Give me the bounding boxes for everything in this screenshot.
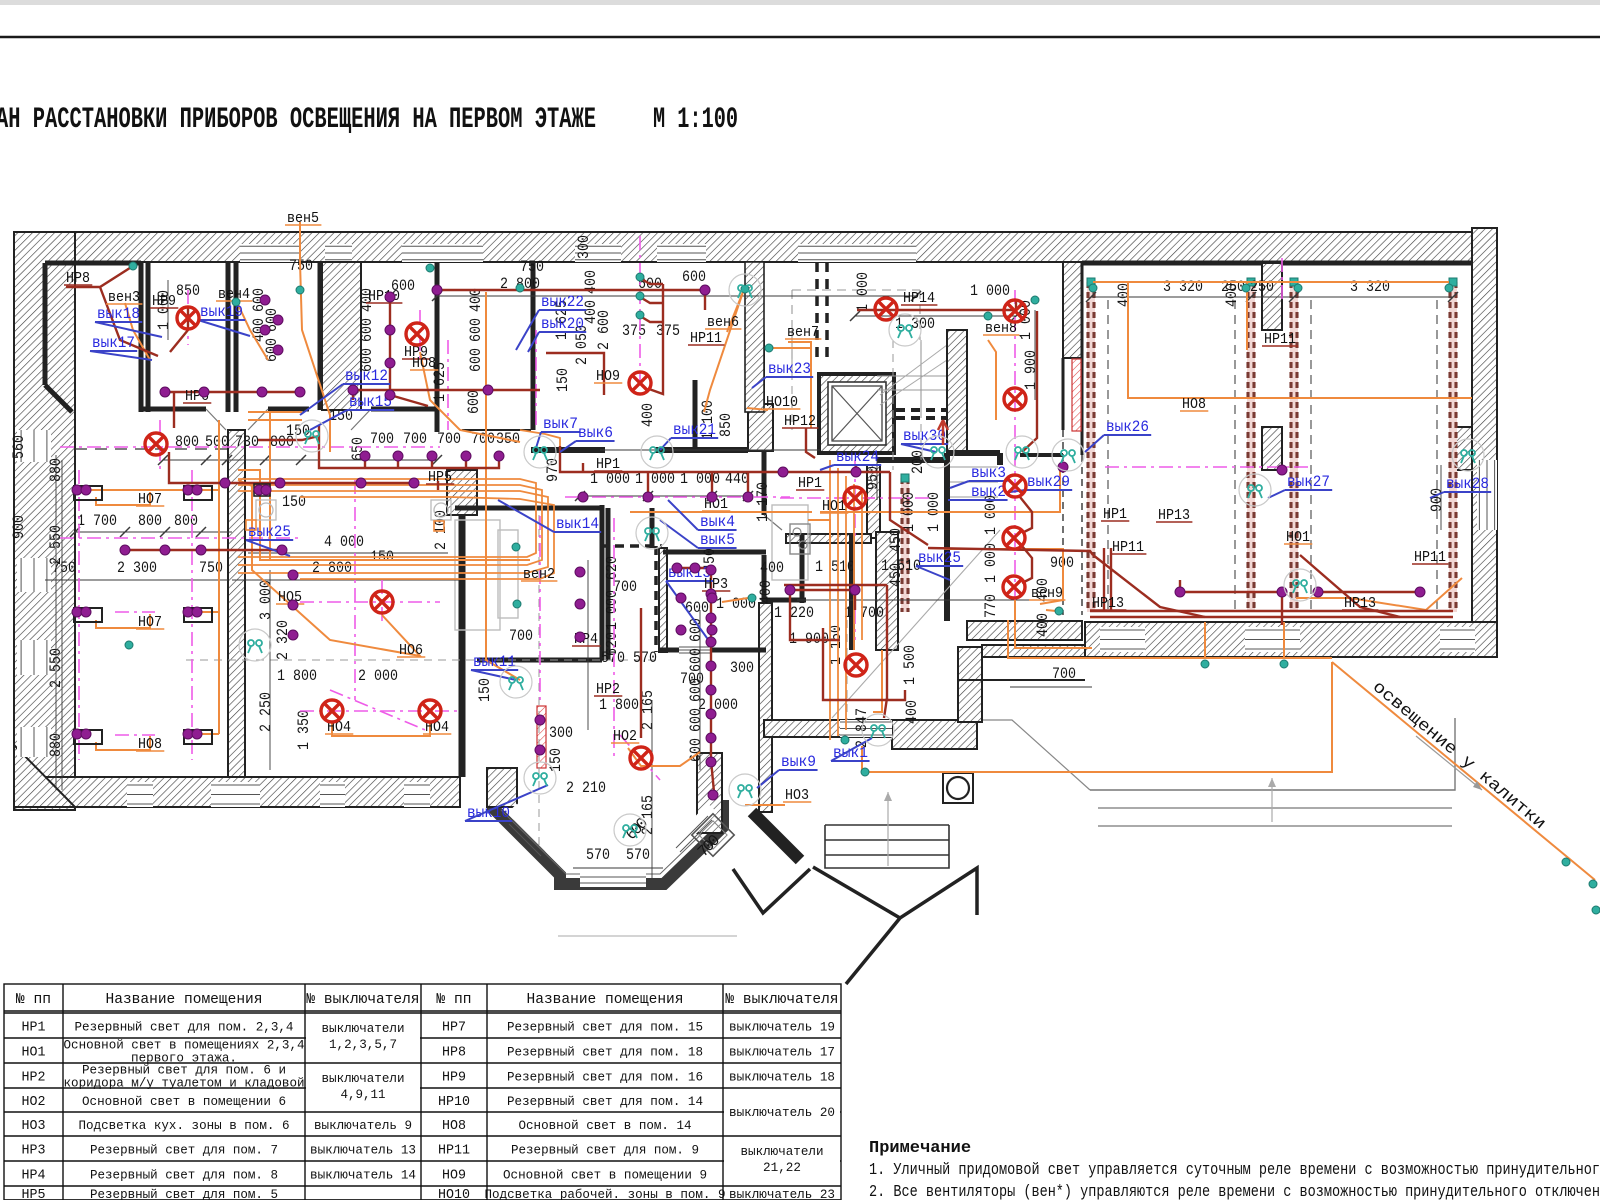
- kitchen sink diamond: [692, 814, 734, 856]
- kitchen niche walls: [786, 534, 871, 543]
- dark red wire r39: [854, 590, 856, 610]
- orange bundle b6: [837, 468, 839, 736]
- orange wire o18: [420, 352, 520, 442]
- orange pi symbol: [246, 520, 256, 530]
- dark red wire r22: [1022, 311, 1037, 452]
- dark red wire r52: [353, 389, 540, 391]
- lamp НО1 room9: [845, 654, 867, 676]
- orange wire o39: [1046, 610, 1056, 611]
- porch steps: [825, 825, 949, 868]
- bay window walls: [493, 800, 723, 884]
- switch label вык12: [300, 367, 390, 415]
- svg-text:1 000: 1 000: [970, 282, 1010, 300]
- svg-text:вык25: вык25: [248, 523, 291, 541]
- dark red wire r35: [784, 584, 887, 586]
- svg-text:620: 620: [603, 556, 621, 580]
- orange wire o5: [96, 492, 150, 505]
- svg-text:600: 600: [685, 599, 709, 617]
- svg-text:выключатель 9: выключатель 9: [314, 1118, 412, 1133]
- svg-text:НР5: НР5: [22, 1187, 46, 1200]
- svg-text:вык10: вык10: [467, 804, 510, 822]
- bay right shoulder wall: [697, 753, 722, 833]
- svg-text:Резервный свет для пом. 15: Резервный свет для пом. 15: [507, 1020, 703, 1035]
- dark red wire r32: [823, 628, 905, 700]
- svg-text:800: 800: [175, 433, 199, 451]
- label НО5: [276, 589, 304, 606]
- dark red wire r5: [390, 297, 428, 406]
- svg-text:вык2: вык2: [971, 483, 1006, 501]
- svg-text:выключатели: выключатели: [741, 1144, 824, 1159]
- table: [4, 984, 841, 1200]
- dark red wire r53: [352, 390, 354, 400]
- orange wire o34: [788, 342, 811, 428]
- label НР9: [402, 344, 430, 361]
- orange wire o40: [745, 804, 785, 806]
- dark red wiring: [66, 266, 1453, 792]
- svg-text:700: 700: [403, 430, 427, 448]
- orange wire o44: [1204, 622, 1206, 658]
- svg-text:300: 300: [549, 724, 573, 742]
- switch label вык23: [752, 360, 813, 388]
- fans teal: [129, 262, 137, 270]
- orange wire o19: [808, 520, 830, 540]
- svg-text:900: 900: [10, 515, 28, 539]
- label НР1: [796, 475, 824, 492]
- hall top wall segments: [531, 447, 605, 453]
- svg-text:400: 400: [582, 300, 600, 324]
- dark red wire r51: [437, 481, 439, 490]
- bay left pier: [487, 768, 517, 807]
- label НО6: [397, 642, 425, 659]
- orange bundle b8: [853, 484, 855, 650]
- dark red wire r1: [66, 266, 133, 287]
- svg-text:М 1:100: М 1:100: [653, 103, 738, 137]
- svg-text:3 320: 3 320: [1163, 278, 1203, 296]
- svg-text:1 700: 1 700: [77, 512, 117, 530]
- svg-text:3 320: 3 320: [1350, 278, 1390, 296]
- orange wire o31: [988, 340, 996, 420]
- orange wire o33: [704, 292, 743, 412]
- svg-text:2 300: 2 300: [117, 559, 157, 577]
- label НР5: [426, 469, 454, 486]
- svg-text:№ пп: № пп: [16, 991, 51, 1008]
- svg-text:1 800: 1 800: [599, 696, 639, 714]
- dark red wire r48: [397, 458, 399, 468]
- svg-text:НО1: НО1: [22, 1045, 46, 1061]
- orange wire o29: [630, 511, 812, 513]
- switch label вык15: [310, 393, 394, 430]
- dark red wire r21: [1015, 300, 1017, 310]
- label НР12: [782, 413, 818, 430]
- switch label вык1: [831, 738, 872, 762]
- right section top inner wall: [1082, 261, 1472, 266]
- interior walls top-left rooms: [45, 261, 141, 266]
- dark red wire r50: [465, 458, 467, 468]
- label вен2: [521, 566, 557, 583]
- svg-text:вык5: вык5: [700, 531, 735, 549]
- lamp corridor: [145, 433, 167, 455]
- ceiling zone dashed line: [75, 448, 228, 450]
- dark red wire r13: [560, 446, 890, 472]
- dark red wire r49: [431, 458, 433, 468]
- dark red wire r2: [100, 287, 158, 356]
- wall outer left band: [14, 232, 75, 810]
- hall right-mid walls: [947, 450, 1000, 456]
- dark red wire r38: [640, 608, 642, 738]
- svg-text:вык21: вык21: [673, 421, 716, 439]
- bay windows: [508, 803, 717, 887]
- label вен9: [1029, 585, 1065, 602]
- elevator shaft: [819, 374, 894, 453]
- dark red wire r56: [640, 316, 663, 322]
- svg-text:1. Уличный придомовой свет упр: 1. Уличный придомовой свет управляется с…: [869, 1161, 1600, 1180]
- svg-text:570: 570: [633, 649, 657, 667]
- svg-text:Резервный свет для пом. 14: Резервный свет для пом. 14: [507, 1094, 703, 1109]
- svg-text:1 000: 1 000: [854, 272, 872, 312]
- orange wire o38: [944, 549, 1063, 604]
- lamp НО4: [419, 700, 441, 722]
- label НР13: [1156, 507, 1192, 524]
- orange wire o26: [1296, 578, 1462, 610]
- switch label вык5: [660, 520, 737, 549]
- switch label вык10: [465, 785, 548, 822]
- svg-text:Резервный свет для пом. 8: Резервный свет для пом. 8: [90, 1168, 278, 1183]
- label НО8: [410, 355, 438, 372]
- furniture sofa: [498, 530, 518, 618]
- svg-text:вык28: вык28: [1446, 475, 1489, 493]
- lamp НО9: [629, 372, 651, 394]
- lower stair treads: [950, 467, 998, 512]
- vent shaft dashed: [817, 262, 827, 362]
- switch label вык7: [536, 415, 580, 448]
- orange wire o14: [197, 733, 219, 735]
- svg-text:НР9: НР9: [442, 1070, 466, 1086]
- lamp НО2: [630, 747, 652, 769]
- gray diagonal terrace: [832, 530, 1000, 718]
- wall below risers: [1020, 453, 1063, 457]
- svg-text:300: 300: [575, 235, 593, 259]
- dark red wire r28: [1103, 548, 1105, 612]
- svg-text:вык27: вык27: [1287, 473, 1330, 491]
- wall outer bottom-right band: [1085, 622, 1497, 657]
- svg-text:вык3: вык3: [971, 464, 1006, 482]
- svg-text:выключатели: выключатели: [322, 1071, 405, 1086]
- dark red wire r18: [890, 472, 928, 545]
- dark red wire r33: [886, 585, 888, 700]
- orange bundle b4: [300, 497, 554, 579]
- svg-text:Название помещения: Название помещения: [527, 991, 684, 1008]
- orange bundle b1: [238, 479, 536, 557]
- porch diagonal wall: [752, 812, 800, 860]
- svg-text:375: 375: [656, 322, 680, 340]
- orange wire o23: [1093, 281, 1449, 283]
- terrace outline bottom right: [982, 720, 1090, 790]
- label НО9: [594, 368, 622, 385]
- svg-text:вык1: вык1: [833, 744, 868, 762]
- svg-text:300: 300: [730, 659, 754, 677]
- dark red wire r41: [790, 590, 840, 640]
- dark red wire r11: [437, 289, 705, 291]
- vent room walls (вен2): [455, 506, 602, 511]
- svg-text:400: 400: [1034, 613, 1052, 637]
- dark red wire r58: [546, 353, 604, 395]
- svg-text:600: 600: [467, 318, 485, 342]
- svg-text:вык14: вык14: [556, 515, 599, 533]
- switch label вык13: [666, 564, 713, 645]
- lamp stair2: [1004, 475, 1026, 497]
- dark red wire r55: [640, 297, 663, 303]
- svg-text:770: 770: [982, 594, 1000, 618]
- orange wire o16: [238, 480, 420, 656]
- label вен5: [285, 210, 321, 227]
- dark red wire r12: [704, 290, 706, 310]
- switch label вык27: [1268, 473, 1332, 498]
- label НО7: [136, 614, 164, 631]
- wall lamp dots: [220, 478, 230, 488]
- orange wire o27: [486, 292, 520, 680]
- svg-text:600: 600: [687, 678, 705, 702]
- svg-text:вык4: вык4: [700, 513, 735, 531]
- svg-text:1 500: 1 500: [901, 645, 919, 685]
- svg-text:150: 150: [282, 493, 306, 511]
- switch label вык29: [1010, 473, 1072, 492]
- svg-text:400: 400: [903, 700, 921, 724]
- switch label вык22: [516, 293, 586, 350]
- gray dashed guides: [186, 330, 921, 845]
- right wall inner stubs: [1452, 427, 1472, 470]
- svg-text:НР1: НР1: [22, 1020, 46, 1036]
- svg-text:730: 730: [235, 433, 259, 451]
- svg-text:600: 600: [682, 268, 706, 286]
- svg-text:выключатель 23: выключатель 23: [729, 1187, 835, 1200]
- right wall window: [1477, 460, 1497, 530]
- svg-text:620: 620: [603, 632, 621, 656]
- orange wire o42: [861, 746, 863, 772]
- svg-text:НР2: НР2: [22, 1070, 46, 1086]
- room9 bottom wall: [764, 720, 892, 737]
- svg-text:НР4: НР4: [22, 1168, 46, 1184]
- switch label вык18: [95, 305, 162, 337]
- lamp stair4: [1003, 576, 1025, 598]
- label НР11: [1110, 539, 1146, 556]
- svg-text:2 250: 2 250: [257, 692, 275, 732]
- svg-text:600: 600: [465, 390, 483, 414]
- lamp НР14: [875, 298, 897, 320]
- label НО10: [764, 394, 800, 411]
- top border line: [0, 36, 1600, 39]
- svg-text:Основной свет в помещении 9: Основной свет в помещении 9: [503, 1168, 707, 1183]
- dark red wire r36: [711, 568, 714, 792]
- dark red wire r45: [855, 466, 857, 472]
- label НР11: [688, 330, 724, 347]
- svg-text:600: 600: [687, 648, 705, 672]
- svg-text:вык23: вык23: [768, 360, 811, 378]
- label НР11: [1262, 331, 1298, 348]
- switch label вык2: [948, 483, 1008, 501]
- right section left wall hatched: [1063, 262, 1082, 358]
- svg-text:2 800: 2 800: [312, 559, 352, 577]
- orange bundle b2: [238, 485, 542, 565]
- gas box symbol: [943, 773, 973, 803]
- orange wire o46: [1128, 397, 1472, 399]
- orange wire o24: [1128, 282, 1190, 398]
- orange wire o22: [1015, 600, 1092, 648]
- orange wire o25: [1246, 282, 1248, 350]
- orange wire o13: [197, 611, 219, 613]
- switch label вык25: [246, 523, 293, 556]
- svg-text:2. Все вентиляторы (вен*) упра: 2. Все вентиляторы (вен*) управляются ре…: [869, 1183, 1600, 1200]
- wall block right of hall: [748, 404, 773, 451]
- dark red wire r26: [1090, 616, 1453, 618]
- dimension ticks: [70, 291, 1458, 537]
- svg-text:2 210: 2 210: [566, 779, 606, 797]
- svg-text:выключатель 14: выключатель 14: [310, 1168, 416, 1183]
- svg-text:150: 150: [476, 678, 494, 702]
- dark red wire r24: [1022, 546, 1032, 583]
- orange wire o41: [873, 650, 882, 712]
- svg-text:21,22: 21,22: [763, 1160, 801, 1175]
- wall south of stairwell: [967, 621, 1082, 640]
- dark red wire r37: [677, 567, 711, 569]
- switch label вык11: [471, 653, 518, 680]
- svg-text:выключатель 13: выключатель 13: [310, 1143, 416, 1158]
- dark red wire r34: [884, 698, 887, 718]
- switch label вык28: [1430, 475, 1491, 498]
- bay ground line: [558, 935, 737, 937]
- svg-text:выключатель 19: выключатель 19: [729, 1020, 835, 1035]
- red arrow up near вык30: [938, 420, 948, 445]
- svg-text:400: 400: [757, 580, 775, 604]
- orange wire o2: [300, 262, 330, 452]
- svg-text:Резервный свет для пом. 2,3,4: Резервный свет для пом. 2,3,4: [75, 1020, 294, 1035]
- dark red wire r43: [1180, 580, 1282, 592]
- svg-text:НО2: НО2: [22, 1094, 46, 1110]
- dark red wire r20: [857, 309, 1016, 311]
- svg-text:150: 150: [547, 748, 565, 772]
- porch V outline: [733, 869, 810, 913]
- svg-text:1 350: 1 350: [295, 710, 313, 750]
- red riser column: [1072, 359, 1081, 431]
- kitchen lower right wall: [759, 603, 772, 812]
- dark red wire r29: [1110, 548, 1112, 612]
- svg-text:вык25: вык25: [918, 549, 961, 567]
- bottom-right wall windows: [1100, 627, 1145, 652]
- svg-text:АН РАССТАНОВКИ ПРИБОРОВ ОСВЕЩЕ: АН РАССТАНОВКИ ПРИБОРОВ ОСВЕЩЕНИЯ НА ПЕР…: [0, 103, 596, 137]
- svg-text:150: 150: [554, 368, 572, 392]
- svg-text:НР11: НР11: [438, 1143, 470, 1159]
- svg-text:500: 500: [205, 433, 229, 451]
- svg-text:600: 600: [358, 318, 376, 342]
- dark red wire r14: [582, 463, 584, 472]
- switch label вык17: [90, 334, 152, 360]
- label НО8: [136, 736, 164, 753]
- hall-kitchen wall: [762, 450, 767, 515]
- lamp НО4: [321, 700, 343, 722]
- label НР6: [183, 388, 211, 405]
- dark red wire r19: [806, 428, 815, 458]
- svg-text:2 320: 2 320: [274, 620, 292, 660]
- dark red wire r27: [1093, 555, 1205, 617]
- svg-text:800: 800: [174, 512, 198, 530]
- dark red wire r9: [258, 436, 319, 440]
- corridor wall horizontal: [141, 407, 206, 412]
- kitchen red riser: [537, 706, 546, 768]
- furniture kitchen counter: [772, 505, 808, 580]
- lamp stair: [1004, 388, 1026, 410]
- panel device boxes: [256, 500, 451, 520]
- svg-text:1 800: 1 800: [277, 667, 317, 685]
- svg-text:вык22: вык22: [541, 293, 584, 311]
- switch label вык14: [498, 500, 601, 533]
- svg-text:выключатель 20: выключатель 20: [729, 1105, 835, 1120]
- orange wire o12: [248, 419, 302, 421]
- orange wiring: [89, 222, 1595, 880]
- svg-text:1 700: 1 700: [844, 604, 884, 622]
- riser R3: [1290, 278, 1298, 612]
- dark red wire r6: [169, 452, 414, 483]
- svg-text:Резервный свет для пом. 16: Резервный свет для пом. 16: [507, 1070, 703, 1085]
- bottom-left wall windows: [127, 782, 153, 807]
- svg-text:450: 450: [887, 528, 905, 552]
- svg-text:700: 700: [509, 627, 533, 645]
- lamp НР14b: [1004, 300, 1026, 322]
- storage room walls: [606, 508, 611, 660]
- svg-text:Резервный свет для пом. 9: Резервный свет для пом. 9: [511, 1143, 699, 1158]
- label НР10: [366, 288, 402, 305]
- label НР3: [702, 576, 730, 593]
- label НО1: [1284, 529, 1312, 546]
- label вен6: [705, 314, 741, 331]
- dark red wire r54: [640, 278, 663, 284]
- svg-text:вык11: вык11: [473, 653, 516, 671]
- label вен7: [785, 324, 821, 341]
- kitchen upper right wall: [867, 465, 880, 538]
- label НО4: [423, 719, 451, 736]
- orange wire o9: [218, 490, 220, 734]
- svg-text:НО8: НО8: [442, 1118, 466, 1134]
- switch label вык30: [901, 427, 948, 452]
- svg-text:450: 450: [887, 563, 905, 587]
- svg-text:Основной свет в помещении 6: Основной свет в помещении 6: [82, 1094, 286, 1109]
- svg-text:Примечание: Примечание: [869, 1139, 971, 1158]
- svg-text:коридора м/у туалетом и кладов: коридора м/у туалетом и кладовой: [64, 1076, 305, 1091]
- dimension lines: [45, 280, 1453, 880]
- svg-text:600: 600: [467, 348, 485, 372]
- wall under stairs: [877, 457, 947, 463]
- svg-text:1 170: 1 170: [754, 482, 772, 522]
- svg-text:700: 700: [1052, 665, 1076, 683]
- stair core hatched wall: [745, 262, 764, 412]
- svg-text:вык18: вык18: [97, 305, 140, 323]
- orange wire o32: [727, 292, 743, 332]
- label НР4: [572, 631, 600, 648]
- orange bundle b10: [520, 430, 560, 470]
- riser R1: [1087, 278, 1095, 612]
- lamp НО6: [371, 591, 393, 613]
- dark red wire r25: [928, 548, 1093, 555]
- svg-text:600: 600: [687, 708, 705, 732]
- svg-text:вык20: вык20: [541, 315, 584, 333]
- orange bundle b9: [861, 492, 863, 640]
- orange wire o4: [236, 300, 268, 360]
- orange wire o28: [1332, 662, 1595, 880]
- svg-text:вык9: вык9: [781, 753, 816, 771]
- orange wire o43: [1008, 620, 1332, 658]
- left hall inner wall: [228, 430, 245, 777]
- svg-text:400: 400: [467, 288, 485, 312]
- hall wall lamp pair: [254, 484, 270, 496]
- label НР9: [150, 293, 178, 310]
